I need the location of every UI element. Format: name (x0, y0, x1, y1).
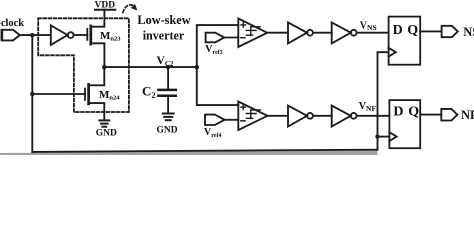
flip-flop FF1 (389, 17, 421, 65)
node VC2 riser junction (195, 65, 199, 69)
svg-text:Vref4: Vref4 (204, 127, 221, 139)
svg-text:VDD: VDD (95, 0, 116, 10)
svg-text:NS: NS (463, 25, 474, 39)
inverter U7 (332, 106, 351, 127)
wire VC2 (104, 66, 197, 68)
wire FF2 Q to NF pad (420, 114, 441, 116)
wire clock riser to flip-flops (378, 52, 389, 150)
inverter U4 (332, 22, 351, 43)
inverter U6 (288, 106, 307, 127)
node clock junction (30, 33, 34, 37)
wire VNF to FF2 (357, 115, 390, 117)
svg-text:D: D (393, 105, 403, 120)
svg-text:Q: Q (408, 105, 419, 120)
wire comparator2 to inverter (268, 115, 289, 117)
wire clock vertical down (31, 35, 33, 152)
capacitor C2 (158, 67, 175, 113)
input pad Vref3 (206, 33, 225, 43)
wire VC2 to comparator2 plus (197, 67, 239, 105)
svg-text:VC2: VC2 (157, 55, 174, 68)
inverter U1 (51, 25, 68, 45)
wire VC2 to comparator1 plus (197, 25, 239, 67)
svg-text:VNF: VNF (359, 101, 377, 113)
wire comparator1 to inverter (267, 32, 288, 34)
wire Vref4 to comparator2 minus (225, 119, 239, 121)
svg-text:-clock: -clock (0, 18, 24, 29)
node VC2 drain junction (102, 65, 106, 69)
svg-text:Mn24: Mn24 (99, 89, 120, 102)
dashed low-skew inverter box (38, 18, 129, 112)
svg-text:VNS: VNS (360, 20, 377, 32)
grey scan band bottom (0, 151, 378, 155)
svg-text:GND: GND (157, 126, 178, 136)
comparator U2 (238, 19, 267, 48)
node clock branch to FF2 (375, 134, 379, 138)
svg-text:Low-skew: Low-skew (137, 13, 190, 27)
wire between top inverters (313, 32, 332, 34)
FF2 clock marker (389, 132, 396, 141)
node capacitor junction (166, 65, 170, 69)
ground under Mn24 (99, 120, 109, 126)
svg-text:Mn23: Mn23 (100, 30, 121, 43)
output pad NF (441, 109, 457, 121)
wire between bottom inverters (313, 115, 332, 117)
comparator U5 (238, 102, 267, 131)
wire clock bottom run (32, 150, 377, 152)
wire clock pad to inverter (20, 34, 51, 36)
clock input pad (2, 30, 20, 41)
wire VNS to FF1 (357, 32, 389, 34)
output pad NS (442, 26, 458, 37)
wire to Mn24 gate (32, 93, 85, 95)
svg-text:Q: Q (407, 23, 418, 38)
dashed pointer arrow (123, 5, 134, 13)
transistor Mn24 (85, 67, 104, 120)
VDD rail (95, 9, 115, 11)
svg-text:C2: C2 (142, 84, 156, 101)
FF1 clock marker (389, 48, 396, 57)
svg-text:D: D (393, 23, 403, 38)
svg-text:NF: NF (461, 108, 474, 122)
svg-text:Vref3: Vref3 (205, 44, 222, 56)
ground under C2 (163, 114, 174, 121)
input pad Vref4 (205, 115, 225, 125)
svg-text:GND: GND (96, 129, 117, 139)
inverter U3 (288, 22, 307, 43)
wire FF1 Q to NS pad (420, 30, 441, 32)
flip-flop FF2 (389, 100, 420, 148)
node gate branch (30, 92, 34, 96)
transistor Mn23 (87, 10, 104, 67)
wire Vref3 to comparator1 minus (224, 37, 238, 39)
svg-text:inverter: inverter (143, 29, 185, 43)
wire inverter to Mn23 gate (74, 34, 88, 36)
wire to FF2 clock (378, 136, 390, 138)
